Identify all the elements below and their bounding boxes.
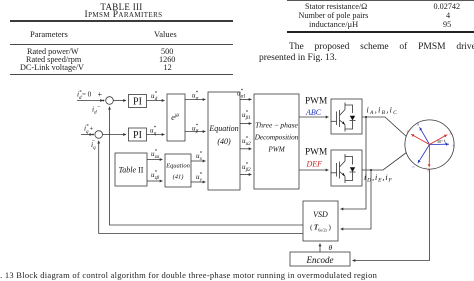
svg-text:F: F (427, 169, 430, 173)
svg-text:C: C (413, 165, 416, 169)
svg-text:u*β2: u*β2 (242, 163, 251, 173)
svg-text:iD,iE,iF: iD,iE,iF (364, 173, 393, 184)
svg-text:E: E (406, 130, 409, 134)
svg-text:VSD: VSD (313, 210, 328, 219)
svg-text:A: A (452, 144, 455, 148)
svg-text:Decomposition: Decomposition (254, 134, 299, 142)
svg-text:u*β1: u*β1 (242, 111, 251, 121)
svg-text:Equation: Equation (165, 163, 190, 170)
svg-text:u*x: u*x (196, 152, 203, 162)
svg-text:iA,iB,iC: iA,iB,iC (367, 106, 399, 117)
svg-text:Encode: Encode (306, 255, 334, 265)
svg-text:u*zβ: u*zβ (151, 171, 160, 181)
svg-text:i*d= 0: i*d= 0 (77, 90, 92, 101)
svg-text:PWM: PWM (267, 146, 285, 154)
svg-text:DEF: DEF (306, 160, 323, 169)
svg-text:ABC: ABC (305, 108, 322, 117)
svg-text:Three − phase: Three − phase (255, 121, 298, 130)
svg-text:Equation: Equation (208, 124, 238, 133)
svg-text:PI: PI (133, 130, 142, 141)
svg-text:Table II: Table II (119, 166, 144, 175)
svg-text:B: B (417, 123, 419, 127)
svg-text:i*q+: i*q+ (84, 124, 93, 135)
svg-text:θ: θ (329, 243, 333, 252)
svg-text:(40): (40) (217, 137, 231, 146)
svg-text:u*β: u*β (192, 124, 199, 134)
svg-text:PI: PI (133, 96, 142, 107)
svg-text:u*zα: u*zα (151, 150, 160, 160)
svg-text:iq−: iq− (91, 138, 96, 151)
svg-text:u*q: u*q (150, 126, 157, 136)
svg-text:u*α2: u*α2 (242, 137, 251, 147)
svg-text:+: + (98, 90, 103, 99)
svg-text:u*y: u*y (196, 173, 203, 183)
svg-text:PWM: PWM (305, 148, 327, 158)
svg-text:PWM: PWM (305, 97, 327, 107)
svg-text:u*α: u*α (192, 91, 199, 101)
svg-text:(41): (41) (173, 174, 184, 181)
svg-text:30°: 30° (437, 139, 443, 144)
svg-text:id−: id− (92, 104, 101, 115)
